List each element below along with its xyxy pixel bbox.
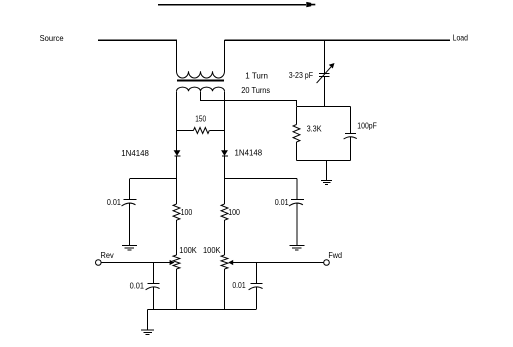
svg-text:1 Turn: 1 Turn	[245, 70, 268, 80]
svg-text:100pF: 100pF	[357, 121, 377, 131]
wire left column upper	[176, 91, 178, 150]
potentiometer R5 100K (left)	[173, 255, 180, 269]
svg-text:100: 100	[228, 207, 240, 217]
wire Fwd wiper arm	[233, 262, 324, 264]
capacitor C4 0.01 (right)	[291, 199, 304, 201]
resistor R2 150	[177, 130, 193, 132]
wire Source line	[98, 39, 177, 41]
svg-text:1N4148: 1N4148	[235, 147, 263, 157]
wire right column mid	[224, 156, 226, 204]
svg-text:100: 100	[181, 207, 193, 217]
potentiometer R6 100K (right)	[221, 255, 228, 269]
capacitor C3 0.01 (left)	[124, 199, 137, 201]
transformer T1 core	[177, 80, 224, 82]
wire left column mid	[176, 156, 178, 204]
svg-text:3.3K: 3.3K	[307, 123, 322, 133]
direction arrow (power flow)	[158, 4, 306, 6]
wire junction to C5	[153, 263, 155, 284]
wire Rev wiper arm	[101, 262, 170, 264]
svg-text:Load: Load	[453, 32, 469, 42]
diode D1 1N4148	[174, 151, 180, 156]
svg-text:Fwd: Fwd	[328, 250, 342, 260]
capacitor C2 100pF	[350, 107, 352, 134]
wire right column upper	[224, 91, 226, 150]
ground (under C4)	[289, 246, 304, 251]
wire tee to C3	[130, 178, 177, 180]
node Fwd	[324, 260, 330, 266]
svg-text:Source: Source	[40, 33, 64, 43]
capacitor C6 0.01 (lower right)	[251, 283, 263, 285]
svg-text:Rev: Rev	[101, 250, 115, 260]
ground (bottom bus)	[141, 330, 154, 334]
resistor R3 100 (left)	[173, 204, 180, 220]
wire Load line	[225, 39, 451, 41]
svg-text:150: 150	[195, 113, 206, 123]
transformer T1 secondary (20 Turns)	[177, 87, 225, 91]
svg-text:100K: 100K	[203, 245, 221, 255]
svg-text:3-23 pF: 3-23 pF	[289, 70, 313, 80]
ground (RC network)	[321, 181, 332, 185]
diode D2 1N4148	[222, 151, 228, 156]
wire junction to C6	[256, 263, 258, 284]
svg-text:100K: 100K	[179, 245, 197, 255]
wire RC box top	[297, 106, 351, 108]
wire bottom bus	[147, 309, 256, 311]
svg-text:0.01: 0.01	[130, 281, 145, 291]
svg-text:0.01: 0.01	[275, 197, 289, 207]
resistor R4 100 (right)	[221, 204, 228, 220]
svg-text:0.01: 0.01	[232, 280, 245, 290]
ground (under C3)	[122, 246, 137, 251]
svg-text:1N4148: 1N4148	[121, 148, 149, 158]
node Rev	[96, 260, 102, 266]
capacitor C1 3-23 pF (variable)	[319, 40, 330, 106]
resistor R1 3.3K	[296, 107, 298, 125]
wire tee to C4	[225, 178, 298, 180]
svg-text:0.01: 0.01	[107, 197, 121, 207]
transformer T1 primary (1 Turn)	[177, 40, 225, 78]
capacitor C5 0.01 (lower left)	[148, 283, 160, 285]
svg-text:20 Turns: 20 Turns	[241, 85, 270, 95]
wire RC box bottom	[297, 160, 351, 162]
wire secondary tap to detector RC	[201, 91, 297, 106]
